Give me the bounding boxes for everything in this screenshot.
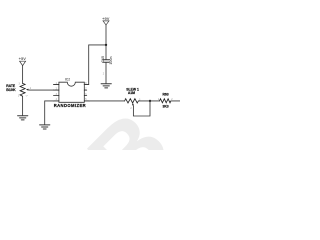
svg-text:+5V: +5V <box>19 56 27 61</box>
IC2 pin 5 <box>84 100 89 102</box>
svg-text:A1M: A1M <box>128 91 135 95</box>
wire SLEW wiper loop to output node <box>133 101 150 116</box>
wire RATE pot to ground <box>22 96 24 115</box>
svg-text:3K3: 3K3 <box>162 104 168 108</box>
svg-text:C15: C15 <box>101 56 105 63</box>
svg-text:1: 1 <box>18 96 20 98</box>
svg-text:+9V: +9V <box>102 16 110 21</box>
node junction +9V rail <box>105 44 107 46</box>
potentiometer SLEW 1 A1M <box>125 88 141 111</box>
svg-text:2: 2 <box>103 73 105 75</box>
wire RATE wiper to IC2 pin 2 <box>29 89 53 91</box>
wire IC2 pin 4 to ground <box>45 101 54 125</box>
wire +5V to RATE pot <box>22 66 24 84</box>
potentiometer RATE B10K <box>6 83 32 97</box>
IC2 pin 6 <box>84 95 86 97</box>
ground below RATE pot <box>18 116 28 120</box>
svg-text:R63: R63 <box>162 93 168 97</box>
svg-text:100n: 100n <box>109 56 113 64</box>
ground below IC2 pin 4 <box>40 125 50 129</box>
IC2 pin 3 <box>54 95 59 97</box>
wire C15 to ground <box>105 63 107 84</box>
watermark logo B <box>69 93 188 212</box>
IC2 pin 8 <box>84 84 88 86</box>
IC U IC2 RANDOMIZER body <box>59 82 84 102</box>
svg-text:3: 3 <box>19 83 21 85</box>
ground below C15 <box>101 84 111 88</box>
svg-text:IC2: IC2 <box>65 78 70 82</box>
IC2 pin 7 <box>84 89 86 91</box>
supply +9V symbol <box>102 16 110 25</box>
IC2 pin 1 <box>54 84 59 86</box>
svg-text:B10K: B10K <box>6 88 16 92</box>
resistor R63 3K3 <box>158 93 173 109</box>
node junction SLEW output <box>149 100 151 102</box>
wire IC2 pin 8 to +9V rail <box>84 45 106 85</box>
wire SLEW pot to R63 <box>138 100 159 102</box>
capacitor C15 100n <box>101 56 113 75</box>
svg-text:RANDOMIZER: RANDOMIZER <box>54 103 86 108</box>
wire IC2 pin 5 to SLEW pot <box>89 100 124 102</box>
supply +5V symbol <box>19 56 27 66</box>
wire +9V down to C15 <box>105 25 107 60</box>
IC2 pin 4 <box>54 100 59 102</box>
wire R63 to right edge <box>171 100 180 102</box>
IC2 pin 2 <box>54 89 59 91</box>
